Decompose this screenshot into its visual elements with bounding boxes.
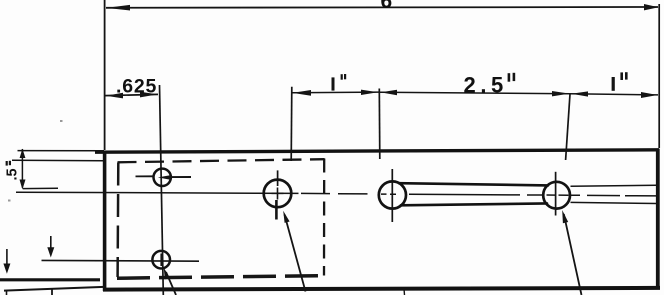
H1 center line left segment (136, 175, 154, 177)
H3 vertical center line upper (277, 170, 279, 186)
dimension line .625 (105, 94, 158, 95)
arrowhead 2.5 left (380, 90, 397, 95)
H3 vertical center line lower thick (275, 200, 278, 220)
dimension line .5 vertical (21, 149, 23, 188)
label 2.5 double prime (508, 73, 511, 82)
arrowhead .5 up (20, 149, 26, 158)
hidden dashed rectangle bottom edge (117, 276, 327, 279)
dimension line 1 inch first (292, 91, 379, 94)
large hole H3 circle (264, 180, 292, 208)
label 1 inch first: bar of the 1 (332, 77, 335, 90)
svg-text:.625: .625 (116, 75, 157, 97)
slot bar bottom edge (401, 203, 547, 205)
label 1 inch first: double prime (341, 74, 343, 80)
extension / center line vertical through small holes (160, 85, 164, 295)
bottom-left down arrow 1 (6, 249, 8, 266)
slot open-end bottom line to right edge (571, 202, 657, 203)
speck lower left (8, 200, 11, 202)
bottom tick at x52 (51, 290, 53, 295)
leader arrow to large hole H3 (285, 215, 306, 292)
extension line right vertical (658, 4, 660, 148)
slot open-end top line to right edge (571, 185, 657, 186)
plate outline top edge (95, 150, 659, 152)
arrowhead 1in-second left (points right into ext) (571, 91, 588, 96)
extension line at x292 (290, 87, 293, 161)
arrowhead 1in-second right (641, 92, 658, 98)
H2 center cross horizontal (42, 259, 200, 262)
label 1 inch second: bar (612, 77, 615, 91)
plate outline right edge (656, 149, 660, 290)
extension line at x379 (378, 89, 381, 160)
leader arrow to lower hole H2 (166, 272, 176, 295)
svg-text:6: 6 (381, 0, 393, 13)
dimension line 1 inch second (570, 94, 658, 95)
label .5 double prime (6, 161, 8, 166)
small hole H1 upper circle (154, 169, 171, 186)
small hole H2 lower circle (152, 251, 170, 269)
speck near left extension (60, 120, 63, 122)
arrowhead .5 down (20, 180, 26, 190)
extension line at x567 (566, 94, 570, 160)
extension line left vertical (6 dim) (104, 0, 106, 150)
dimension line 2.5 inch (379, 92, 570, 94)
plate outline left edge (103, 151, 107, 292)
extension line dashed-rect top extended left (12, 159, 103, 162)
bottom-left down arrow 2 (50, 236, 52, 249)
slot right vertical center line (555, 172, 557, 216)
hidden dashed rectangle left edge (116, 163, 119, 278)
extension line plate top extended left (18, 150, 105, 152)
arrowhead 1in-first right (361, 90, 378, 95)
dimension line 6 inch (106, 6, 658, 9)
svg-text:.5: .5 (5, 168, 21, 180)
arrowhead 2.5 right (552, 91, 569, 96)
svg-text:2.5: 2.5 (464, 73, 508, 98)
slot left vertical center line (391, 169, 393, 222)
bottom-left thick line (0, 278, 100, 281)
arrowhead 6 right (644, 4, 659, 10)
arrowhead 1in-first left (292, 90, 311, 96)
H1 arrow tail line (168, 176, 191, 178)
H3 small center cross (272, 188, 284, 200)
H2 center cross small vertical tick (160, 254, 162, 267)
slot bar top edge (399, 183, 548, 185)
hidden dashed rectangle right edge (323, 159, 326, 276)
hidden dashed rectangle top edge (118, 159, 325, 162)
bottom tick at x404 (403, 289, 406, 295)
leader arrow to slot right circle (564, 214, 582, 295)
bottom-left lower line (4, 287, 104, 291)
H1 arrow pointing left into center (158, 175, 171, 180)
slot right circle (543, 182, 570, 209)
arrowhead .625 right (140, 92, 158, 98)
short terminal line under .5 arrow (23, 187, 58, 189)
bottom tick at x6 (6, 290, 8, 295)
long horizontal center line through holes (16, 192, 657, 196)
arrowhead .625 left (106, 93, 123, 99)
plate outline bottom edge (103, 288, 660, 290)
slot left circle (379, 181, 406, 208)
label 1 inch second: double prime (620, 72, 623, 80)
arrowhead 6 left (106, 5, 130, 11)
